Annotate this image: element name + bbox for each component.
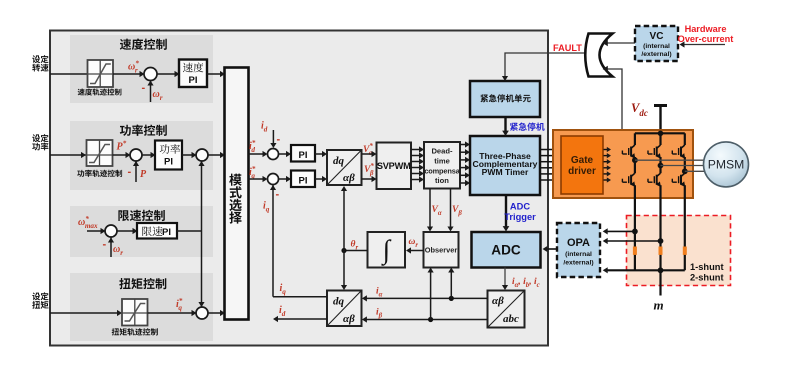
wire i_beta clarke to park bbox=[366, 319, 488, 321]
panel torque control bbox=[70, 273, 213, 341]
svg-text:dq: dq bbox=[333, 155, 345, 167]
wire set-torque input bbox=[50, 312, 118, 314]
title torque control bbox=[119, 278, 166, 289]
wire sense V to OPA bbox=[606, 240, 661, 242]
svg-text:Observer: Observer bbox=[425, 246, 458, 255]
svg-text:-: - bbox=[142, 82, 146, 94]
wire observer to integrator omega_r bbox=[410, 250, 424, 252]
wires gate driver to bridge bbox=[604, 149, 608, 151]
wire omega_max to summing bbox=[87, 230, 101, 232]
node phase U bbox=[632, 157, 638, 163]
svg-text:-: - bbox=[276, 189, 280, 201]
svg-text:ADC: ADC bbox=[491, 243, 521, 258]
dc bus bottom rail bbox=[606, 269, 685, 271]
label emergency stop bbox=[510, 122, 545, 130]
dc bus top rail bbox=[635, 132, 685, 134]
wire limit PI output bbox=[177, 230, 202, 232]
feedback iq into summing bbox=[272, 185, 274, 297]
svg-text:Dead-: Dead- bbox=[431, 147, 453, 156]
svg-text:PI: PI bbox=[164, 157, 173, 168]
or gate fault bbox=[585, 34, 612, 77]
wire OPA to ADC bbox=[546, 248, 557, 250]
summing junction id bbox=[268, 149, 279, 160]
panel power control bbox=[70, 121, 213, 190]
svg-text:PWM Timer: PWM Timer bbox=[482, 167, 529, 177]
shunt resistor W bbox=[683, 247, 687, 255]
svg-text:dq: dq bbox=[333, 296, 345, 308]
wire ADC to clarke block bbox=[504, 268, 506, 287]
limit PI block bbox=[117, 230, 133, 232]
wire Valpha to SVPWM bbox=[362, 153, 373, 155]
wire theta up to dq block bbox=[343, 190, 345, 251]
summing junction limit bbox=[105, 225, 117, 237]
wire ramp to summing torque bbox=[148, 312, 193, 314]
integrator block bbox=[368, 232, 406, 268]
wire i_alpha clarke to park bbox=[366, 297, 488, 299]
outer controller box bbox=[50, 31, 548, 346]
svg-text:i*q: i*q bbox=[249, 165, 256, 180]
leg phase U to shunt bbox=[634, 198, 636, 270]
svg-text:1-shunt: 1-shunt bbox=[690, 262, 724, 272]
wire dc bus sense to or gate bbox=[606, 69, 622, 133]
wires Valpha Vbeta deadtime to observer bbox=[429, 189, 431, 229]
node phase V bbox=[658, 163, 664, 169]
label power trajectory control bbox=[77, 170, 122, 177]
wire set-power input bbox=[50, 154, 87, 156]
wire over-current input bbox=[682, 44, 725, 46]
igbt low side phase U bbox=[634, 160, 636, 173]
observer block bbox=[424, 232, 459, 268]
svg-text:ADC: ADC bbox=[510, 202, 530, 212]
svg-text:αβ: αβ bbox=[492, 295, 504, 307]
SVPWM block bbox=[377, 143, 412, 190]
vertical limit to power summing bbox=[201, 162, 203, 232]
feedback omega_r limit bbox=[110, 238, 112, 258]
ADC trigger wire bbox=[505, 195, 507, 227]
wires deadtime to PWM timer bbox=[460, 144, 467, 146]
wire id summing to PI1 bbox=[279, 153, 288, 155]
svg-text:PI: PI bbox=[162, 227, 171, 238]
park transform block dq-alphabeta bbox=[327, 291, 362, 327]
shunt resistor V bbox=[659, 247, 663, 255]
label set speed bbox=[32, 55, 48, 63]
wire sense bottom to OPA bbox=[603, 267, 608, 273]
wire sense U to OPA bbox=[606, 230, 635, 232]
svg-text:ω*r: ω*r bbox=[128, 60, 139, 75]
three-phase PWM timer block bbox=[470, 136, 540, 195]
label speed trajectory control bbox=[78, 89, 122, 96]
Vdc rail symbol bbox=[654, 104, 667, 107]
wire integrator to theta node bbox=[344, 250, 368, 252]
svg-text:PI: PI bbox=[299, 176, 308, 187]
svg-text:V*β: V*β bbox=[364, 163, 374, 177]
wire i_beta up to observer bbox=[430, 271, 432, 320]
ramp block speed trajectory bbox=[88, 60, 114, 87]
summing junction power 2 bbox=[182, 154, 193, 156]
svg-text:i*d: i*d bbox=[249, 139, 256, 154]
wire emergency to PWM timer bbox=[504, 117, 506, 132]
OPA block bbox=[557, 223, 600, 277]
igbt low side phase V bbox=[659, 166, 661, 174]
wire Vbeta to SVPWM bbox=[362, 178, 373, 180]
node phase W bbox=[682, 168, 688, 174]
title speed control bbox=[120, 39, 167, 50]
vertical limit to torque summing bbox=[201, 231, 203, 307]
ramp block torque trajectory bbox=[122, 299, 148, 326]
svg-text:(internal: (internal bbox=[643, 43, 670, 50]
phase wires to motor bbox=[635, 159, 704, 161]
leg phase V to shunt bbox=[659, 198, 661, 296]
svg-text:(internal: (internal bbox=[565, 251, 592, 258]
wire mode to iq summing bbox=[249, 178, 264, 180]
igbt high side phase U bbox=[634, 133, 636, 145]
power PI block bbox=[142, 154, 152, 156]
wire torque to mode block bbox=[208, 312, 221, 314]
wire ramp to summing power bbox=[113, 154, 127, 156]
svg-text:driver: driver bbox=[568, 166, 596, 177]
svg-text:/external): /external) bbox=[563, 260, 593, 267]
wire iq output to feedback bbox=[273, 296, 327, 298]
ramp block power trajectory bbox=[87, 140, 113, 166]
summing junction power 1 bbox=[130, 149, 142, 161]
VC block bbox=[635, 26, 678, 61]
shunt sense box bbox=[627, 216, 731, 286]
svg-text:αβ: αβ bbox=[343, 172, 355, 184]
label set torque bbox=[32, 292, 48, 300]
node theta junction bbox=[341, 248, 346, 253]
wire VC to or gate bbox=[606, 42, 635, 44]
igbt low side phase W bbox=[684, 171, 686, 173]
svg-text:Gate: Gate bbox=[571, 155, 594, 166]
svg-text:Trigger: Trigger bbox=[504, 212, 536, 222]
wire PI2 to dq block bbox=[315, 178, 323, 180]
svg-text:time: time bbox=[434, 157, 450, 166]
speed PI block bbox=[157, 73, 176, 75]
svg-text:SVPWM: SVPWM bbox=[377, 161, 411, 171]
svg-text:PI: PI bbox=[299, 150, 308, 161]
svg-text:∫: ∫ bbox=[381, 235, 392, 267]
wire iq summing to PI2 bbox=[279, 178, 288, 180]
node sense V bbox=[658, 238, 664, 244]
igbt high side phase W bbox=[684, 133, 686, 145]
node sense U bbox=[632, 229, 638, 235]
summing junction iq bbox=[268, 174, 279, 185]
title power control bbox=[120, 125, 167, 136]
svg-text:Over-current: Over-current bbox=[678, 34, 734, 44]
wire mode to id summing bbox=[249, 153, 264, 155]
svg-text:m: m bbox=[654, 298, 664, 313]
wire PI1 to dq block bbox=[315, 153, 323, 155]
svg-text:FAULT: FAULT bbox=[553, 43, 582, 53]
wire theta down to dq decode block bbox=[343, 251, 345, 287]
wire speed PI to mode block bbox=[207, 73, 221, 75]
clarke transform block alphabeta-abc bbox=[488, 291, 525, 328]
leg phase W to shunt bbox=[684, 198, 686, 270]
inverter box bbox=[553, 130, 693, 198]
label set power bbox=[32, 134, 48, 142]
wire ramp to summing bbox=[113, 73, 141, 75]
svg-text:/external): /external) bbox=[641, 51, 671, 58]
svg-text:-: - bbox=[128, 166, 132, 178]
summing junction speed bbox=[144, 68, 157, 81]
svg-text:-: - bbox=[277, 134, 281, 146]
svg-text:abc: abc bbox=[503, 313, 519, 325]
svg-text:PI: PI bbox=[189, 75, 198, 86]
PI block d-axis bbox=[291, 145, 315, 162]
emergency stop unit block bbox=[470, 81, 540, 117]
wire power to mode block bbox=[208, 154, 221, 156]
svg-text:2-shunt: 2-shunt bbox=[690, 273, 724, 283]
node sense bottom bbox=[658, 267, 664, 273]
wire set-speed input bbox=[50, 73, 88, 75]
dead-time compensation block bbox=[424, 142, 460, 189]
wire i_alpha up to observer bbox=[450, 271, 452, 298]
svg-text:αβ: αβ bbox=[343, 313, 355, 325]
dq to alpha-beta block bbox=[327, 150, 362, 185]
gate driver block bbox=[561, 136, 603, 194]
wire FAULT to emergency unit bbox=[505, 53, 586, 77]
shunt resistor U bbox=[633, 247, 637, 255]
label torque trajectory control bbox=[112, 328, 158, 335]
wires PWM timer to gate driver bbox=[540, 149, 556, 151]
wires SVPWM to deadtime bbox=[411, 149, 421, 151]
ADC block bbox=[472, 232, 541, 268]
feedback P bbox=[135, 162, 137, 183]
PI block q-axis bbox=[291, 171, 315, 188]
panel speed control bbox=[70, 35, 213, 103]
title limit control bbox=[118, 210, 164, 221]
igbt high side phase V bbox=[659, 133, 661, 145]
svg-text:Hardware: Hardware bbox=[685, 24, 727, 34]
svg-text:i*q: i*q bbox=[176, 297, 183, 312]
svg-text:VC: VC bbox=[650, 31, 664, 42]
svg-text:-: - bbox=[103, 239, 107, 251]
wire id output bbox=[277, 318, 327, 320]
svg-text:tion: tion bbox=[435, 176, 449, 185]
panel limit control bbox=[70, 206, 213, 257]
svg-text:compensa: compensa bbox=[424, 167, 460, 176]
mode selection block bbox=[225, 68, 249, 320]
svg-text:P: P bbox=[140, 169, 147, 180]
feedback omega_r bbox=[150, 81, 152, 102]
summing junction torque bbox=[196, 307, 208, 319]
svg-text:OPA: OPA bbox=[567, 237, 590, 249]
svg-text:PMSM: PMSM bbox=[708, 158, 745, 172]
